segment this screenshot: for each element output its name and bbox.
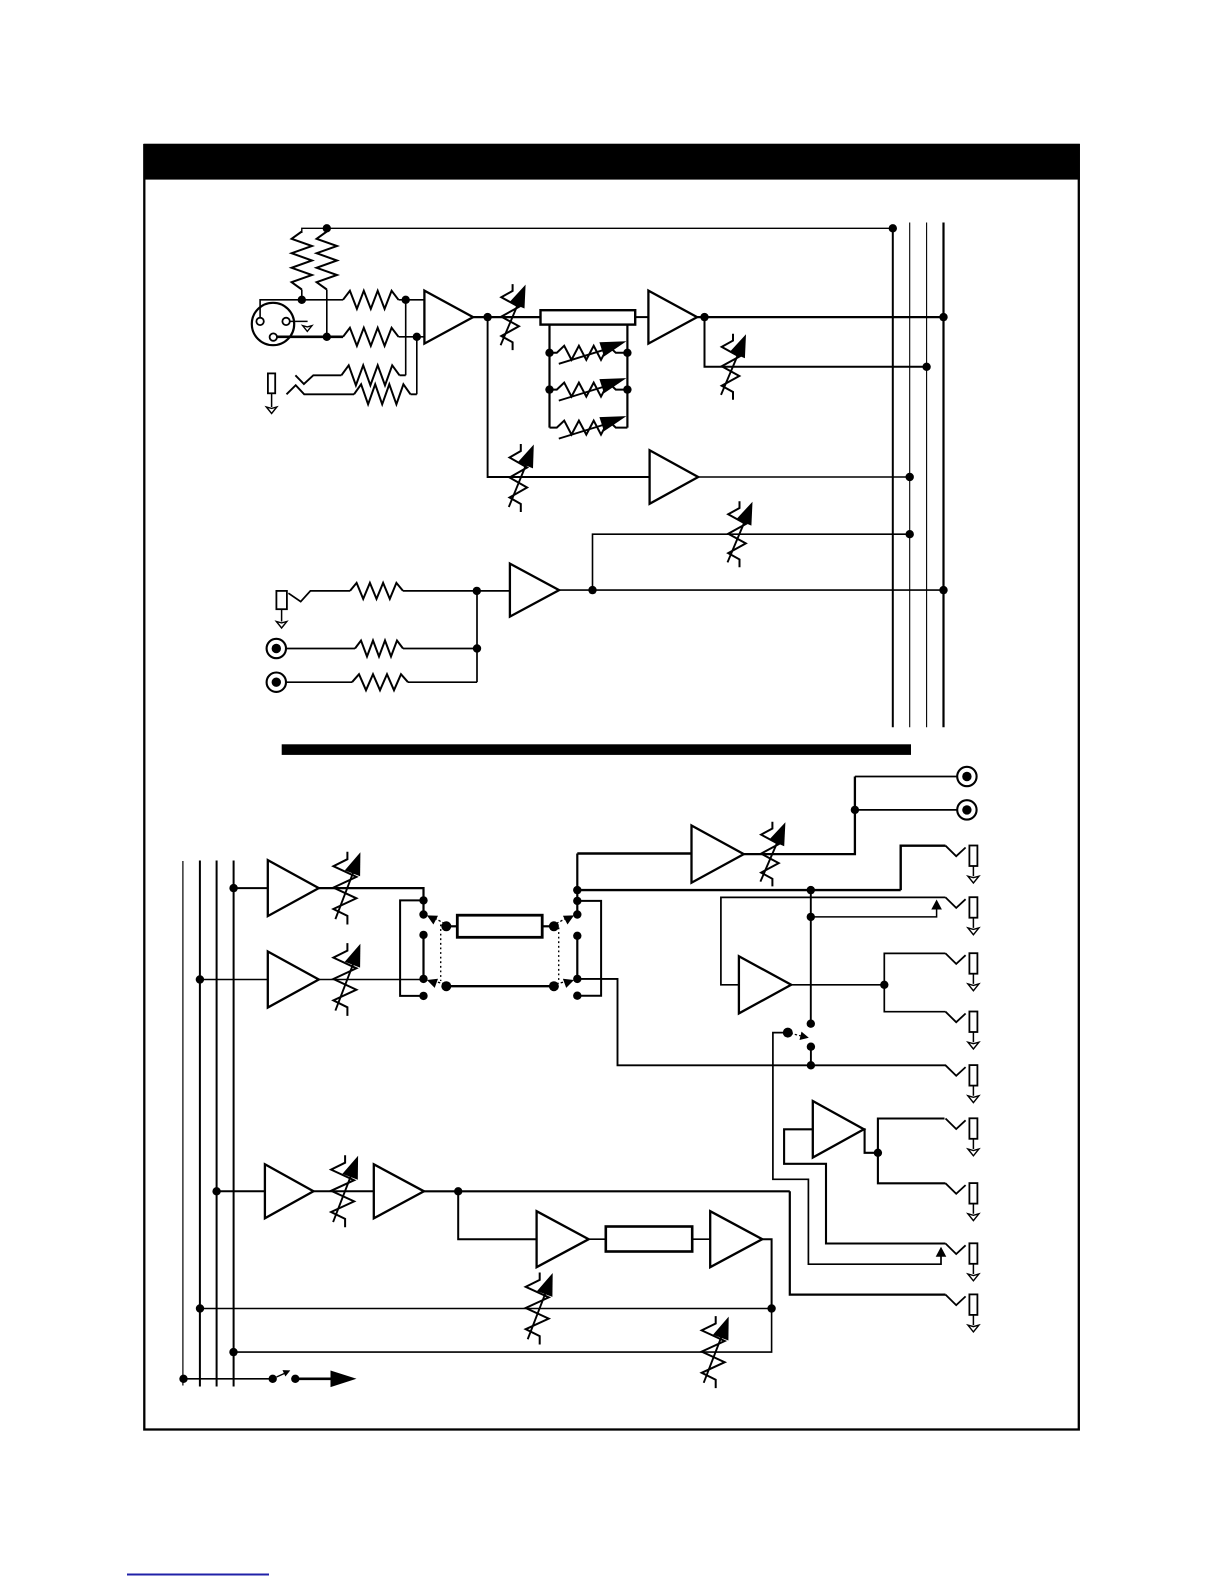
wire phones select loop: [773, 1033, 941, 1265]
jack J9 phones 1: [946, 1118, 979, 1156]
junction bus 4 / U5 input: [229, 884, 237, 892]
resistor R1: [292, 232, 312, 300]
junction node nL: [573, 932, 581, 940]
bus line 1: [892, 228, 894, 727]
bus line 1 lower: [182, 861, 184, 1386]
junction node nA: [419, 896, 427, 904]
jack J8 mon out 3: [946, 1065, 979, 1103]
wire nI loop: [577, 901, 601, 996]
wire phones amp input: [784, 1129, 945, 1243]
switch S2 arm right lower: [556, 979, 574, 988]
wire to RCA out R: [855, 809, 957, 811]
XLR connector J1: [252, 303, 294, 345]
wire EQ rail right: [626, 325, 628, 428]
resistor R2: [317, 232, 337, 337]
switch contact line jack: [288, 591, 350, 602]
junction node A: [402, 296, 410, 304]
junction rail left row 1: [545, 349, 553, 357]
op-amp U7 main out: [692, 826, 744, 883]
wire bypass F to N: [446, 985, 554, 987]
junction rail right row 2: [623, 385, 631, 393]
trim pot VR1: [501, 284, 526, 350]
wire main bus feed: [577, 889, 900, 891]
wire RCA L: [287, 648, 355, 650]
bus line 4 lower: [233, 861, 235, 1387]
wire XLR pin 2: [260, 300, 343, 318]
op-amp U12 delay in: [537, 1211, 589, 1267]
switch S2 gang link left: [440, 925, 442, 982]
wire phones main column: [810, 890, 812, 1024]
junction node nG: [419, 992, 427, 1000]
bus line 3: [926, 223, 928, 728]
wire aux send to bus 2: [698, 476, 910, 478]
switch contact S1b: [287, 385, 355, 394]
wire pan tap: [705, 317, 927, 367]
junction aux send / bus 2: [906, 473, 914, 481]
junction line mix mid: [473, 644, 481, 652]
junction switch common F: [441, 981, 451, 991]
title bar: [144, 144, 1080, 180]
op-amp U3 aux send: [650, 450, 699, 504]
eq pot VR6: [550, 378, 628, 401]
resistor R9 feedback: [354, 384, 417, 404]
wire U8 output: [791, 984, 884, 986]
jack J5 monitor: [946, 897, 979, 935]
RCA P3 rec out L: [957, 767, 976, 786]
wire mon bus to jack: [577, 979, 946, 1065]
block delay line: [606, 1227, 692, 1252]
wire footswitch: [184, 1378, 273, 1380]
ground insert jack: [266, 407, 276, 413]
wire echo send: [424, 1190, 790, 1192]
wire bus 3 to U10: [217, 1190, 265, 1192]
switch S2 arm right upper: [556, 915, 574, 924]
junction RCA split: [851, 806, 859, 814]
resistor R5: [350, 583, 510, 599]
wire common C to EQ: [446, 925, 457, 927]
junction echo return split: [767, 1304, 775, 1312]
wire fx tap: [593, 534, 910, 590]
op-amp U5 sub master: [268, 860, 319, 916]
jack J6 mon out 1: [946, 953, 979, 991]
wire RCA R: [287, 681, 352, 683]
junction node nI: [573, 897, 581, 905]
wire link segment left: [422, 935, 424, 979]
wire bus 4 to U5: [234, 887, 268, 889]
bus line 4: [942, 223, 944, 728]
junction switch common N: [549, 981, 559, 991]
jack J12 echo send: [946, 1294, 979, 1332]
resistor R4: [343, 328, 424, 346]
wire U9 output: [864, 1129, 878, 1153]
wire EQ block to U2: [635, 316, 648, 318]
jack J10 phones 2: [946, 1183, 979, 1221]
wire aux tap: [488, 317, 650, 477]
switch contact S1a: [295, 375, 341, 384]
switch S2 gang link right: [558, 928, 560, 983]
junction node nD: [419, 931, 427, 939]
wire feedback node A: [405, 300, 407, 376]
junction echo split: [454, 1187, 462, 1195]
op-amp U8 monitor amp: [739, 956, 791, 1013]
ground XLR pin 1: [303, 326, 312, 332]
wire phones contact to mon: [810, 1047, 812, 1066]
RCA P2 line in R: [267, 673, 286, 692]
junction echo return L / bus 2: [196, 1304, 204, 1312]
junction node nJ: [573, 910, 581, 918]
section divider bar: [282, 744, 911, 755]
junction phones mon tap: [807, 1061, 815, 1069]
bus line 2 lower: [199, 861, 201, 1387]
wire U6 to selector: [319, 979, 424, 981]
wire to phones 1: [878, 1119, 945, 1153]
jack J11 phones aux in: [946, 1243, 979, 1281]
junction node nO: [573, 992, 581, 1000]
wire to RCA out L: [855, 776, 957, 778]
switch S4 footswitch contact: [269, 1370, 291, 1383]
eq pot VR5: [550, 341, 628, 364]
wire echo return R to bus 4: [234, 1309, 772, 1353]
wire line mix junction: [476, 591, 478, 682]
eq pot VR7: [550, 416, 628, 439]
echo send pot VR11: [331, 1155, 358, 1227]
wire U5 to selector: [319, 888, 424, 914]
junction switch common C: [441, 921, 451, 931]
op-amp U10 echo send: [265, 1164, 314, 1218]
wire echo to delay: [458, 1191, 536, 1239]
bus line 2: [909, 223, 911, 728]
jack J2 insert: [268, 373, 275, 407]
wire mon normal return: [811, 900, 942, 917]
pan pot VR2: [721, 334, 746, 400]
junction phantom wire / R2: [323, 224, 331, 232]
bus line 3 lower: [216, 861, 218, 1387]
junction fx tap on line out: [588, 586, 596, 594]
wire footswitch arrow: [295, 1371, 356, 1388]
wire main to U7: [577, 852, 691, 854]
wire U12 to delay block: [589, 1238, 606, 1240]
junction mon normal tap: [807, 913, 815, 921]
wire delay block to U13: [692, 1238, 710, 1240]
wire mon jack feed: [721, 897, 946, 984]
wire echo return L to bus 2: [200, 1308, 772, 1310]
wire echo send elbow: [790, 1191, 946, 1294]
jack J3 line input: [276, 591, 287, 622]
op-amp U9 phones amp: [813, 1101, 864, 1158]
junction phones contact top: [807, 1020, 815, 1028]
op-amp U1 mic preamp: [424, 291, 473, 344]
switch S2 arm left lower: [427, 979, 445, 988]
junction channel out / bus 4: [939, 313, 947, 321]
wire phantom supply to bus 1: [302, 228, 893, 233]
echo return pot VR12: [526, 1273, 553, 1345]
jack J4 main out: [946, 846, 979, 884]
border frame: [144, 145, 1079, 1430]
wire U7 to RCA: [744, 777, 855, 855]
wire phones normal arrow: [936, 1247, 947, 1257]
resistor R3: [343, 291, 424, 309]
wire feedback node B: [416, 337, 418, 395]
junction U8 out split: [880, 981, 888, 989]
ground line jack: [276, 622, 286, 628]
wire to mon out 1: [884, 953, 945, 984]
hyperlink rule: [127, 1574, 269, 1576]
junction switch common K: [549, 921, 559, 931]
sub level pot VR8: [333, 852, 360, 925]
op-amp U11 echo buffer: [374, 1164, 424, 1218]
wire channel out to bus 4: [697, 316, 943, 318]
wire selector right column: [576, 854, 578, 915]
junction pan / bus 3: [922, 363, 930, 371]
resistor R6: [355, 641, 477, 657]
junction U1 output: [483, 313, 491, 321]
junction line mix top: [473, 587, 481, 595]
junction node nE: [419, 975, 427, 983]
wire main out elbow: [901, 846, 946, 890]
aux send pot VR3: [509, 444, 534, 512]
junction bus 1 / footswitch: [179, 1375, 187, 1383]
junction R1 / pin2 wire: [298, 296, 306, 304]
junction footswitch out: [291, 1375, 299, 1383]
wire EQ to common K: [542, 925, 554, 927]
switch S3 phones select: [783, 1028, 809, 1040]
fx send pot VR4: [728, 501, 753, 567]
junction bus 3 / echo: [212, 1187, 220, 1195]
junction node nM: [573, 975, 581, 983]
op-amp U2: [648, 291, 697, 344]
switch S2 arm left upper: [427, 915, 445, 924]
echo return pot VR13: [702, 1316, 729, 1388]
wire U10 to U11: [314, 1190, 374, 1192]
sub level pot VR9: [333, 943, 360, 1016]
wire bypass bracket: [400, 900, 423, 996]
junction node nB: [419, 910, 427, 918]
wire link segment right: [576, 936, 578, 979]
wire EQ rail left: [548, 325, 550, 428]
junction line out / bus 4: [939, 586, 947, 594]
junction rail left row 2: [545, 385, 553, 393]
junction phantom wire / bus 1: [889, 224, 897, 232]
jack J7 mon out 2: [946, 1012, 979, 1050]
op-amp U13 delay out: [710, 1211, 762, 1267]
op-amp U4 line amp: [510, 564, 559, 617]
junction phones main tap: [807, 886, 815, 894]
main level pot VR10: [760, 822, 785, 887]
wire to phones 2: [878, 1153, 946, 1184]
block EQ hi-lo: [541, 310, 636, 324]
junction bus 2 / U6 input: [196, 975, 204, 983]
junction R2 / pin3 wire: [323, 333, 331, 341]
junction echo return R / bus 4: [229, 1348, 237, 1356]
junction U2 output: [700, 313, 708, 321]
junction rail right row 1: [623, 349, 631, 357]
wire bus 2 to U6: [200, 979, 268, 981]
wire U1 output: [473, 316, 540, 318]
op-amp U6 sub master: [268, 952, 319, 1008]
junction fx send / bus 2: [906, 530, 914, 538]
RCA P4 rec out R: [957, 800, 976, 819]
wire XLR pin 1 to ground: [290, 320, 308, 322]
junction phones out split: [874, 1149, 882, 1157]
junction phones contact bottom: [807, 1043, 815, 1051]
resistor R8 feedback: [341, 365, 405, 385]
block graphic EQ: [457, 915, 542, 937]
resistor R7: [352, 674, 477, 690]
RCA P1 line in L: [267, 639, 286, 658]
junction node B: [413, 333, 421, 341]
junction node nH: [573, 886, 581, 894]
wire delay output: [762, 1239, 771, 1308]
wire to mon out 2: [884, 985, 945, 1012]
wire line out to bus 4: [559, 589, 943, 591]
wire XLR pin 3: [277, 335, 343, 338]
